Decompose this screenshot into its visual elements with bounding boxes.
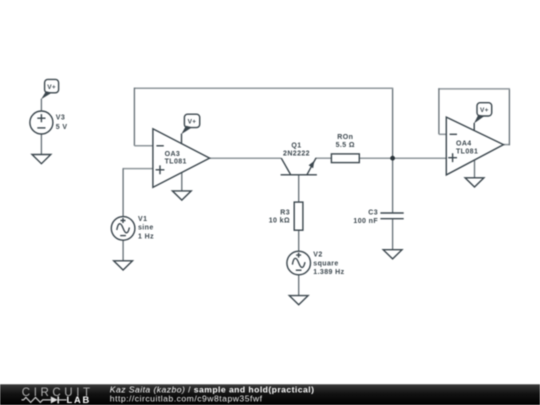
svg-text:V2: V2 — [313, 252, 322, 259]
svg-text:V1: V1 — [138, 216, 147, 223]
svg-text:100 nF: 100 nF — [353, 218, 378, 225]
svg-text:5.5 Ω: 5.5 Ω — [336, 142, 355, 149]
svg-text:1 Hz: 1 Hz — [138, 233, 154, 240]
svg-text:10 kΩ: 10 kΩ — [269, 217, 290, 224]
svg-text:LAB: LAB — [67, 395, 92, 405]
svg-text:ROn: ROn — [337, 134, 353, 141]
svg-text:Q1: Q1 — [291, 142, 301, 149]
svg-text:sine: sine — [138, 225, 154, 232]
svg-text:V+: V+ — [480, 107, 489, 114]
svg-text:TL081: TL081 — [165, 158, 187, 165]
svg-text:1.389 Hz: 1.389 Hz — [313, 269, 344, 276]
svg-text:C3: C3 — [368, 210, 378, 217]
svg-text:V+: V+ — [47, 84, 56, 91]
svg-text:V+: V+ — [188, 119, 197, 126]
svg-text:square: square — [313, 261, 338, 268]
svg-text:V3: V3 — [56, 114, 65, 121]
svg-text:OA3: OA3 — [165, 151, 181, 158]
svg-text:OA4: OA4 — [456, 140, 472, 147]
svg-text:TL081: TL081 — [456, 149, 478, 156]
svg-text:R3: R3 — [280, 210, 290, 217]
svg-text:http://circuitlab.com/c9w8tapw: http://circuitlab.com/c9w8tapw35fwf — [110, 393, 263, 403]
svg-text:5 V: 5 V — [56, 124, 68, 131]
svg-text:2N2222: 2N2222 — [283, 150, 310, 157]
